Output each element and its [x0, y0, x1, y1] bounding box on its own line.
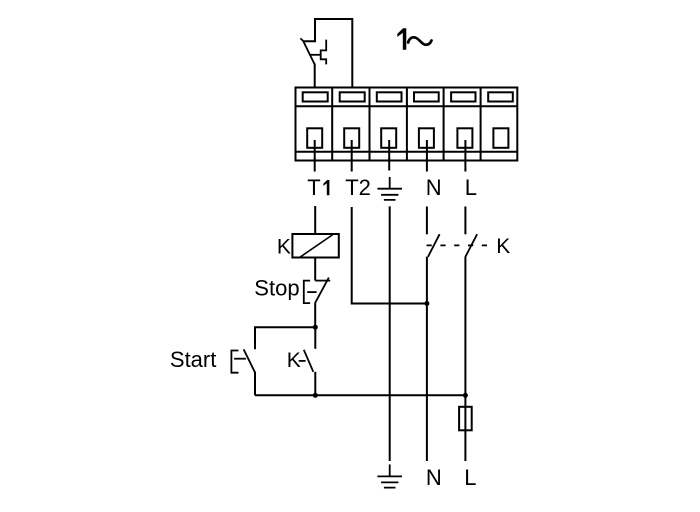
thermal actuator hook	[321, 40, 327, 65]
node A junction dot	[313, 325, 318, 330]
terminal screw 4	[419, 128, 434, 148]
stop NC contact blade	[315, 278, 329, 304]
terminal slot 6	[488, 92, 513, 101]
terminal screw 5	[457, 128, 472, 148]
pigtail PE	[388, 140, 390, 171]
wire T1 drop to coil	[314, 206, 316, 234]
terminal screw 6	[493, 128, 508, 148]
actuator link	[310, 54, 321, 56]
label 1 (digit of 1~)	[397, 28, 406, 50]
wire coil to stop contact	[314, 258, 316, 281]
thermal switch blade	[304, 42, 315, 65]
terminal block outline	[296, 88, 518, 161]
contactor main contact L blade	[465, 234, 477, 257]
terminal screw 3	[381, 128, 396, 148]
terminal slot 1	[303, 92, 328, 101]
svg-text:K: K	[496, 235, 510, 258]
node B junction dot	[313, 393, 318, 398]
svg-text:L: L	[465, 175, 477, 200]
pigtail N	[426, 140, 428, 172]
terminal slot 5	[451, 92, 475, 101]
thermal switch fixed-contact tick	[300, 38, 304, 42]
earth symbol upper	[377, 177, 402, 200]
start pushbutton link dash	[234, 358, 246, 360]
stop pushbutton link dash	[307, 291, 316, 293]
pigtail T1	[314, 140, 316, 172]
svg-text:T: T	[307, 175, 320, 200]
wire N lower	[426, 257, 428, 461]
wire stop to node A	[314, 303, 316, 327]
contactor actuation dashed line	[427, 244, 490, 246]
svg-text:Stop: Stop	[254, 276, 299, 301]
K aux lower wire	[314, 372, 316, 396]
pigtail L	[464, 140, 466, 172]
earth symbol bottom	[377, 464, 402, 487]
terminal slot 4	[414, 92, 439, 101]
label ~ (tilde of 1~)	[408, 37, 431, 45]
pigtail T2	[351, 140, 353, 172]
bottom rail wire	[255, 394, 465, 396]
svg-text:T2: T2	[345, 175, 371, 200]
svg-text:K: K	[287, 349, 301, 372]
svg-text:N: N	[426, 175, 442, 200]
terminal screw 2	[344, 128, 359, 148]
start lower wire	[254, 372, 256, 395]
terminal slot 2	[340, 92, 365, 101]
contactor main contact N blade	[428, 234, 440, 257]
pump cable-box outline	[304, 18, 352, 88]
wire N upper	[426, 207, 428, 235]
K aux label dash	[299, 360, 306, 362]
wire node A to start branch	[255, 327, 315, 349]
coil diagonal	[300, 235, 333, 258]
contactor coil K box	[292, 234, 338, 258]
K aux contact upper wire	[314, 327, 316, 349]
fuse	[459, 407, 472, 431]
svg-text:Start: Start	[170, 347, 216, 372]
start pushbutton bracket	[231, 351, 238, 373]
wire blade to terminal 1	[314, 64, 316, 88]
K aux contact blade	[304, 350, 314, 372]
node C junction dot on L	[463, 393, 468, 398]
svg-text:L: L	[464, 465, 476, 490]
terminal screw 1	[307, 128, 322, 148]
terminal dividers	[332, 88, 480, 161]
wire L lower	[464, 257, 466, 461]
terminal slot 3	[377, 92, 402, 101]
terminal block inner horizontal lines	[296, 106, 518, 152]
node D junction dot T2-N	[424, 301, 429, 306]
wire L upper	[464, 207, 466, 235]
wire T2 drop	[352, 207, 427, 304]
start NO contact blade	[244, 349, 256, 373]
svg-text:N: N	[426, 465, 442, 490]
svg-text:K: K	[277, 235, 291, 258]
wire PE drop	[389, 206, 391, 461]
stop pushbutton bracket	[304, 281, 310, 304]
stop NC contact bar	[315, 280, 330, 282]
